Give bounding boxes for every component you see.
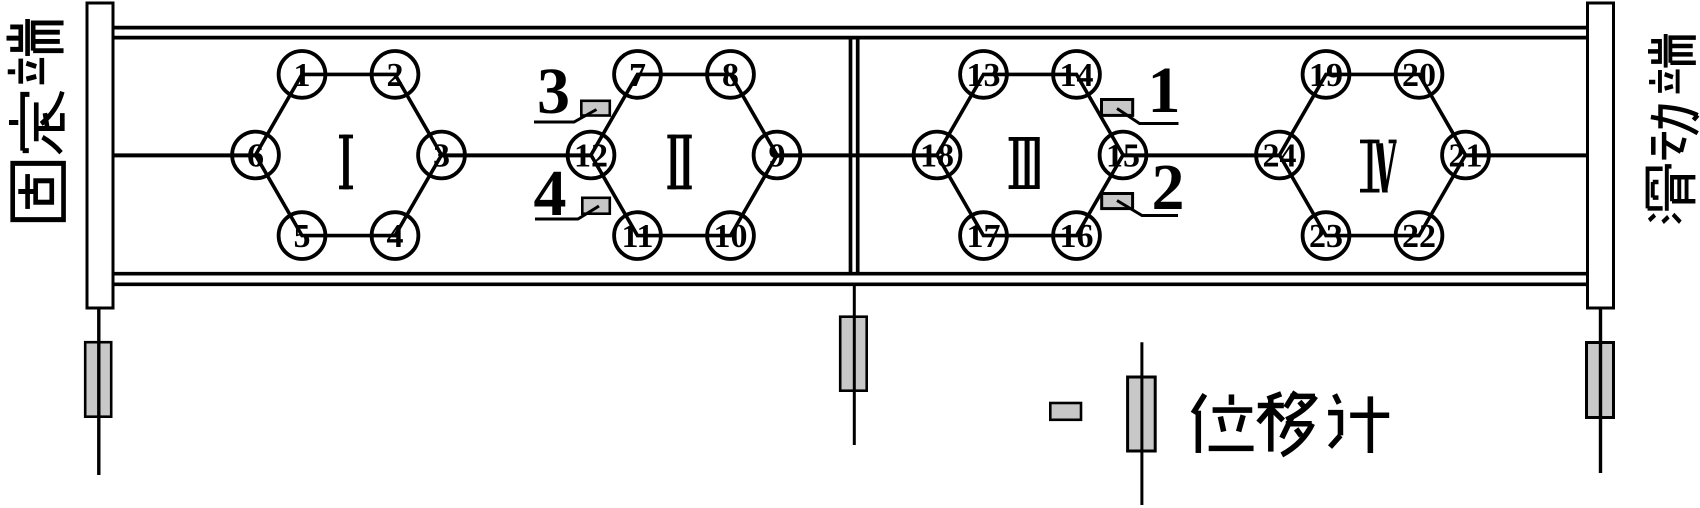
hexagon I edges (256, 74, 442, 235)
right end label char 动 (of 滑动端) (1651, 107, 1698, 160)
svg-text:16: 16 (1060, 218, 1094, 255)
hexagon III edges (937, 74, 1123, 235)
svg-text:22: 22 (1402, 218, 1436, 255)
strain gauge circle 16 (1053, 212, 1100, 259)
svg-text:19: 19 (1309, 57, 1343, 94)
svg-text:11: 11 (621, 218, 653, 255)
left end label char 固 (of 固定端) (13, 163, 64, 219)
strain gauge circle 14 (1053, 51, 1100, 98)
strain gauge circle 6 (232, 132, 279, 179)
svg-text:8: 8 (722, 57, 739, 94)
svg-text:4: 4 (534, 157, 567, 230)
roman numeral III (hexagon III label) (1009, 137, 1040, 189)
strain gauge circle 2 (372, 51, 419, 98)
svg-text:2: 2 (387, 57, 404, 94)
right lower displacement gauge body (1587, 343, 1614, 418)
left end label char 端 (of 固定端) (7, 19, 64, 84)
mid web line segment post to hex I (114, 153, 256, 157)
strain gauge circle 10 (707, 212, 754, 259)
strain gauge circle 13 (960, 51, 1007, 98)
legend text char 计 (1328, 394, 1389, 453)
middle lower displacement gauge rod (853, 284, 856, 445)
displacement sensor rect 2 (1102, 194, 1133, 209)
legend small sensor rect (1050, 403, 1081, 420)
strain gauge circle 7 (614, 51, 661, 98)
middle divider line right (856, 38, 860, 274)
leader line for sensor 2 (1117, 201, 1178, 216)
bottom beam flange line 2 (114, 282, 1586, 286)
leader line for sensor 4 (535, 206, 599, 219)
strain gauge circle 23 (1303, 212, 1350, 259)
strain gauge circle 17 (960, 212, 1007, 259)
svg-text:13: 13 (967, 57, 1001, 94)
svg-text:18: 18 (920, 138, 954, 175)
strain gauge circle 1 (279, 51, 326, 98)
top beam flange line 2 (114, 36, 1586, 40)
svg-text:20: 20 (1402, 57, 1436, 94)
strain gauge circle 15 (1100, 132, 1147, 179)
bottom beam flange line 1 (114, 272, 1586, 276)
legend text char 位 (1193, 394, 1253, 453)
strain gauge circle 3 (418, 132, 465, 179)
right lower displacement gauge rod (1599, 309, 1602, 473)
svg-text:3: 3 (537, 55, 570, 128)
strain gauge circle 19 (1303, 51, 1350, 98)
strain gauge circle 18 (914, 132, 961, 179)
left support post (fixed end) (87, 3, 113, 308)
svg-text:15: 15 (1106, 138, 1140, 175)
svg-text:3: 3 (433, 138, 450, 175)
roman numeral I (hexagon I label) (339, 135, 353, 190)
svg-text:1: 1 (1148, 54, 1181, 127)
middle divider line left (849, 38, 853, 274)
left lower displacement gauge rod (97, 309, 100, 475)
legend text char 移 (1258, 392, 1316, 455)
strain gauge circle 24 (1256, 132, 1303, 179)
svg-text:17: 17 (967, 218, 1001, 255)
strain gauge circle 11 (614, 212, 661, 259)
right end label char 端 (of 滑动端) (1648, 34, 1696, 93)
mid web line segment hex III to hex IV (1123, 153, 1280, 157)
svg-text:10: 10 (714, 218, 748, 255)
strain gauge circle 12 (568, 132, 615, 179)
mid web line segment hex II to hex III (777, 153, 937, 157)
svg-text:23: 23 (1309, 218, 1343, 255)
strain gauge circle 5 (279, 212, 326, 259)
strain gauge circle 9 (754, 132, 801, 179)
svg-text:21: 21 (1449, 138, 1483, 175)
leader line for sensor 3 (534, 110, 597, 123)
top beam flange line 1 (114, 26, 1586, 30)
middle lower displacement gauge body (840, 317, 867, 391)
strain gauge circle 8 (707, 51, 754, 98)
svg-text:14: 14 (1060, 57, 1094, 94)
roman numeral II (hexagon II label) (667, 135, 692, 190)
displacement sensor rect 4 (582, 198, 610, 214)
leader line for sensor 1 (1117, 109, 1179, 124)
strain gauge circle 4 (372, 212, 419, 259)
mid web line segment hex I to hex II (442, 153, 592, 157)
strain gauge circle 21 (1442, 132, 1489, 179)
svg-text:5: 5 (294, 218, 311, 255)
mid web line segment hex IV to right post (1466, 153, 1587, 157)
legend displacement gauge body (1128, 377, 1156, 451)
svg-text:1: 1 (294, 57, 311, 94)
right support post (sliding end) (1588, 3, 1614, 308)
svg-text:9: 9 (769, 138, 786, 175)
svg-text:7: 7 (629, 57, 646, 94)
displacement sensor rect 1 (1102, 100, 1133, 116)
svg-text:12: 12 (574, 138, 608, 175)
svg-text:2: 2 (1152, 151, 1185, 224)
left end label char 定 (of 固定端) (9, 92, 62, 153)
svg-text:4: 4 (387, 218, 404, 255)
right end label char 滑 (of 滑动端) (1648, 166, 1696, 222)
strain gauge circle 20 (1396, 51, 1443, 98)
displacement sensor rect 3 (581, 101, 610, 116)
svg-text:24: 24 (1263, 138, 1297, 175)
strain gauge circle 22 (1396, 212, 1443, 259)
hexagon II edges (591, 74, 777, 235)
roman numeral IV (hexagon IV label) (1360, 140, 1397, 193)
hexagon IV edges (1280, 74, 1466, 235)
svg-text:6: 6 (247, 138, 264, 175)
legend displacement gauge rod (1140, 342, 1143, 505)
left lower displacement gauge body (85, 342, 111, 417)
